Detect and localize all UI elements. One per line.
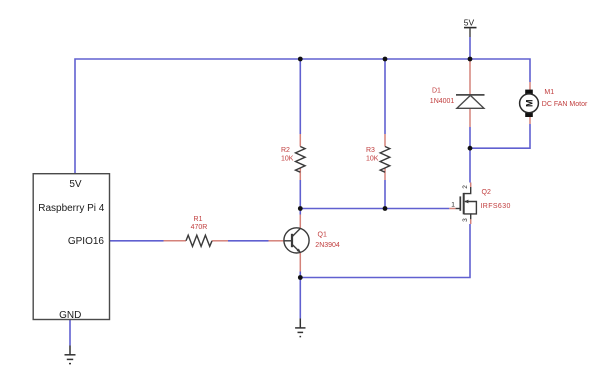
wire base net rail R2-R3-Q2 gate [300,208,449,210]
Raspberry Pi 4 block [33,174,109,321]
svg-text:2: 2 [462,185,469,189]
wire collector stub [299,209,301,215]
wire 5V net: RPi 5V pin up and top rail to motor branch corner [75,59,530,174]
pin M1 bottom lead [529,117,531,124]
svg-text:1N4001: 1N4001 [430,98,455,105]
svg-text:10K: 10K [281,156,294,163]
junction emitter / source return [298,275,303,280]
pin R3 bottom lead [384,168,386,180]
wire RPi GND pin down [69,320,71,346]
svg-text:2N3904: 2N3904 [315,242,340,249]
wire GPIO16 to R1 [110,240,164,242]
pin Q1 base lead [269,240,285,242]
wire R3 bottom to gate rail [384,180,386,209]
wire junction to Q2 drain [469,148,471,182]
svg-text:D1: D1 [432,88,441,95]
pin R2 top lead [299,134,301,147]
resistor R1 [186,235,212,246]
wire emitter stub to junction [299,272,301,278]
svg-text:DC FAN Motor: DC FAN Motor [542,101,588,108]
svg-text:M: M [524,100,534,108]
junction R2 bottom / collector [298,206,303,211]
svg-text:1: 1 [451,201,455,208]
pin Q2 source lead (3) [470,219,472,224]
motor M1 [520,90,539,117]
mosfet Q2 symbol [456,187,477,219]
ground symbol (emitter/source net) [295,319,305,337]
junction 5V flag / diode on rail [468,57,473,62]
pin R1 left lead [164,240,187,242]
svg-text:IRFS630: IRFS630 [480,203,510,210]
wire R3 top drop from rail [384,59,386,134]
svg-text:Q1: Q1 [318,231,327,238]
pin Q1 emitter lead [299,253,301,272]
diode D1 [456,95,485,108]
pin R3 top lead [384,134,386,147]
ground symbol (RPi GND) [65,346,76,364]
resistor R3 [380,147,390,173]
wire diode anode to motor-bottom junction [469,127,471,149]
junction diode anode / motor bottom [468,146,473,151]
svg-text:5V: 5V [464,17,475,27]
pin Q2 drain lead (2) [470,183,472,188]
svg-text:470R: 470R [191,224,208,231]
svg-text:R1: R1 [194,216,203,223]
pin R2 bottom lead [299,168,301,180]
pin M1 top lead [529,82,531,90]
svg-text:GND: GND [59,310,81,321]
wire R2 top drop from rail [299,59,301,134]
svg-text:R2: R2 [281,147,290,154]
junction R3 bottom on gate rail [383,206,388,211]
junction R3 top on 5V rail [383,57,388,62]
svg-text:M1: M1 [544,89,554,96]
power flag 5V (top) [464,17,477,37]
svg-text:5V: 5V [69,179,82,190]
resistor R2 [295,147,305,173]
transistor Q1 symbol [284,228,309,253]
pin D1 anode lead [469,109,471,127]
svg-text:Raspberry Pi 4: Raspberry Pi 4 [38,203,105,214]
wire Q2 source down and left to emitter junction [300,224,470,278]
wire 5V flag to rail [469,37,471,61]
svg-text:3: 3 [462,218,469,222]
junction R2 top on 5V rail [298,57,303,62]
svg-text:10K: 10K [366,156,379,163]
wire emitter junction down to ground [299,278,301,319]
wire motor bottom down and left to junction [470,124,530,148]
svg-text:GPIO16: GPIO16 [68,236,105,247]
wire R1 to Q1 base [228,240,269,242]
pin D1 cathode lead [469,61,471,94]
pin R1 right lead [212,240,228,242]
svg-text:Q2: Q2 [482,189,491,196]
pin Q1 collector lead [299,215,301,229]
pin Q2 gate lead (1) [449,208,455,210]
svg-text:R3: R3 [366,147,375,154]
wire R2 bottom to Q1 collector [299,180,301,209]
